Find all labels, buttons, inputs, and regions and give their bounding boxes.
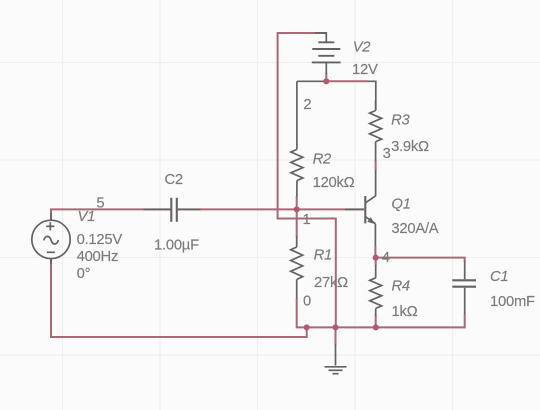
wire net 1: C2 right to Q1 base xyxy=(178,208,364,210)
svg-text:R3: R3 xyxy=(391,113,410,129)
svg-text:5: 5 xyxy=(96,195,104,211)
svg-text:R2: R2 xyxy=(313,151,332,167)
svg-text:0: 0 xyxy=(303,293,311,309)
battery V2 xyxy=(312,33,341,75)
svg-text:V1: V1 xyxy=(78,209,96,225)
resistor R4 xyxy=(370,265,382,316)
wire V2 top loop to ground xyxy=(278,33,336,327)
junction V1 rail xyxy=(304,324,310,330)
svg-text:3.9kΩ: 3.9kΩ xyxy=(391,139,429,155)
transistor Q1 xyxy=(345,170,376,246)
wire node 4 to R4 top xyxy=(375,258,377,266)
svg-text:0.125V: 0.125V xyxy=(77,232,123,248)
svg-text:4: 4 xyxy=(382,250,390,266)
junction node 4 xyxy=(373,255,379,261)
svg-text:27kΩ: 27kΩ xyxy=(314,275,348,291)
svg-text:0°: 0° xyxy=(77,266,91,282)
svg-text:400Hz: 400Hz xyxy=(77,249,119,265)
junction ground rail xyxy=(332,324,338,330)
svg-text:R4: R4 xyxy=(392,279,410,295)
wire R3 top lead xyxy=(368,81,376,110)
wire R2 bottom to node 1 xyxy=(296,196,298,209)
svg-text:R1: R1 xyxy=(314,248,332,264)
wire net 0: V1 bottom to ground rail xyxy=(51,259,307,337)
ground xyxy=(325,344,347,374)
junction node 2 xyxy=(323,78,329,84)
svg-text:1kΩ: 1kΩ xyxy=(392,304,418,320)
wire R2 top lead xyxy=(296,81,298,149)
capacitor C2 xyxy=(144,198,201,222)
svg-text:120kΩ: 120kΩ xyxy=(313,175,355,191)
resistor R2 xyxy=(291,149,303,196)
svg-text:1.00µF: 1.00µF xyxy=(154,238,199,254)
wire node 4 to C1 top xyxy=(376,258,465,262)
resistor R3 xyxy=(370,101,382,162)
svg-text:320A/A: 320A/A xyxy=(391,221,438,237)
svg-text:C1: C1 xyxy=(490,269,508,285)
wire node 1 to R1 top xyxy=(296,209,298,237)
junction R4 rail xyxy=(373,324,379,330)
wire R3 to Q1 collector xyxy=(375,161,377,171)
svg-text:100mF: 100mF xyxy=(490,294,535,310)
wire ground stem xyxy=(335,327,337,345)
junction node 1 xyxy=(294,206,300,212)
svg-text:V2: V2 xyxy=(353,39,372,55)
svg-text:C2: C2 xyxy=(165,172,183,188)
wire R1 bottom to rail xyxy=(297,298,307,327)
wire net 5: V1 top to C2 left xyxy=(51,209,171,219)
wire Q1 emitter to node 4 xyxy=(374,246,376,258)
svg-text:3: 3 xyxy=(383,146,391,162)
svg-text:1: 1 xyxy=(303,212,311,228)
wire R4 bottom to rail xyxy=(375,315,377,327)
wire battery bottom to node 2 xyxy=(325,74,327,82)
wire node 2 rail xyxy=(297,80,368,82)
svg-text:12V: 12V xyxy=(352,62,378,78)
AC source V1 xyxy=(32,213,70,264)
capacitor C1 xyxy=(452,261,476,314)
svg-text:Q1: Q1 xyxy=(391,196,410,212)
wire ground rail to C1 bottom xyxy=(307,314,465,328)
svg-text:2: 2 xyxy=(303,97,311,113)
resistor R1 xyxy=(291,236,303,299)
